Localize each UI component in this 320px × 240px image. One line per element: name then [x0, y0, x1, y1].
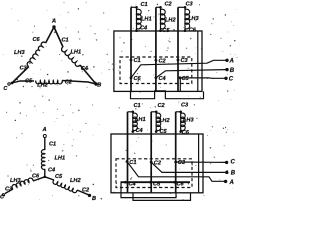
node C5 coil bottom (star box) [155, 130, 158, 133]
wire star-point bar (star box) [121, 181, 191, 183]
node B (delta right vertex) [94, 82, 97, 85]
terminal B (delta box) [225, 68, 228, 71]
svg-text:C6: C6 [182, 130, 190, 136]
wire C1 lead to terminal column (star box) [128, 111, 133, 113]
wire C2 lead to terminal column (delta box) [156, 6, 161, 8]
svg-text:C5: C5 [162, 28, 170, 34]
svg-text:C4: C4 [140, 25, 148, 31]
svg-text:C3: C3 [181, 103, 189, 109]
wire delta side A-B lower [80, 65, 96, 84]
svg-text:LH3: LH3 [183, 118, 194, 124]
terminal A (star box) [224, 180, 227, 183]
winding LH2 (star right branch) [53, 180, 77, 193]
wire C3 lead to terminal column (star box) [176, 111, 181, 113]
svg-text:C3: C3 [186, 2, 194, 8]
svg-text:C6: C6 [33, 37, 41, 43]
winding LH2 (delta box) [161, 9, 166, 29]
wire line A jumper from C6 (delta box) [131, 60, 226, 78]
wire line C from C5 (delta box) [180, 77, 225, 79]
svg-text:C: C [231, 160, 236, 166]
wire delta side A-C upper [46, 27, 54, 43]
node C5 terminal (star box) [149, 181, 152, 184]
svg-text:LH2: LH2 [37, 82, 48, 88]
svg-text:C1: C1 [49, 142, 56, 148]
node C4 terminal (delta box) [155, 76, 158, 79]
winding LH1 (star box) [133, 113, 138, 130]
node C2 terminal (delta box) [155, 59, 158, 62]
node C3 coil top (delta box) [184, 6, 187, 9]
wire column 1 (star box) [127, 112, 129, 193]
svg-text:C5: C5 [25, 79, 33, 85]
wire column 2 C2-C4 (delta box) [155, 7, 157, 91]
svg-text:B: B [97, 83, 101, 89]
wire star left branch lower [5, 189, 13, 194]
svg-text:C6: C6 [134, 76, 142, 82]
wire line C from C3 (star box) [176, 161, 225, 163]
winding LH1 (delta box) [137, 9, 142, 29]
svg-text:B: B [92, 196, 96, 202]
node C5 terminal (delta box) [179, 76, 182, 79]
node C (delta left vertex) [11, 82, 14, 85]
svg-text:B: B [230, 68, 235, 74]
wire LH1 core (star box) [132, 112, 134, 132]
wire C2 lead to terminal column (star box) [151, 111, 156, 113]
svg-text:C6: C6 [189, 28, 197, 34]
node C1 coil top (delta box) [135, 6, 138, 9]
svg-text:LH3: LH3 [188, 16, 199, 22]
winding LH3 (star left branch) [12, 178, 33, 189]
svg-text:LH1: LH1 [71, 50, 82, 56]
wire line B jumper from C2 (star box) [151, 162, 225, 172]
node C6 terminal (star box) [173, 181, 176, 184]
terminal C (star box) [225, 161, 228, 164]
node star point [44, 176, 47, 179]
svg-text:LH1: LH1 [55, 156, 66, 162]
svg-text:C: C [229, 76, 234, 82]
node C6 terminal (delta box) [130, 76, 133, 79]
svg-text:C5: C5 [153, 182, 161, 188]
winding LH2 (star box) [156, 113, 161, 130]
node C3 coil top (star box) [179, 111, 182, 114]
wire star right branch lower [77, 190, 89, 195]
svg-text:C1: C1 [134, 58, 141, 64]
svg-text:C2: C2 [159, 59, 167, 65]
svg-text:C5: C5 [160, 129, 168, 135]
node C1 terminal (delta box) [130, 59, 133, 62]
svg-text:LH2: LH2 [159, 118, 170, 124]
wire LH2 core (delta box) [160, 7, 162, 30]
node C3 terminal (star box) [174, 161, 177, 164]
svg-text:C4: C4 [48, 168, 56, 174]
wire C5 drop (delta box) [179, 78, 181, 92]
svg-text:C2: C2 [65, 80, 73, 86]
wire LH1 core (delta box) [136, 7, 138, 30]
svg-text:C4: C4 [81, 66, 89, 72]
svg-text:C4: C4 [136, 128, 144, 134]
winding LH1 (delta right side) [62, 47, 80, 66]
node C1 coil top (star box) [132, 111, 135, 114]
svg-text:C1: C1 [141, 2, 148, 8]
svg-text:C3: C3 [5, 187, 13, 193]
node B (star) [88, 194, 91, 197]
wire line B jumper from C4 (delta box) [156, 70, 226, 78]
wire star right branch upper [45, 177, 54, 180]
svg-text:A: A [229, 180, 234, 186]
frame stator box (delta) [114, 31, 202, 91]
svg-text:LH3: LH3 [14, 50, 25, 56]
node C5 coil bottom (delta box) [159, 29, 162, 32]
frame inner right edge (star box) [198, 134, 200, 193]
svg-text:A: A [51, 19, 56, 25]
terminal C (delta box) [224, 77, 227, 80]
svg-text:C6: C6 [177, 182, 185, 188]
wire star left branch upper [33, 177, 45, 181]
wire LH3 core (delta box) [184, 7, 186, 30]
svg-text:A: A [229, 58, 234, 64]
svg-text:C2: C2 [158, 103, 166, 109]
svg-text:LH3: LH3 [10, 178, 21, 184]
svg-text:B: B [231, 171, 236, 177]
winding LH3 (delta left side) [27, 42, 45, 66]
wire under-loop 2 (star box) [133, 193, 191, 201]
node C2 coil top (star box) [155, 111, 158, 114]
svg-text:C2: C2 [165, 2, 173, 8]
node C4 coil bottom (star box) [132, 130, 135, 133]
svg-text:C5: C5 [55, 174, 63, 180]
wire star phase A upper [44, 138, 46, 151]
wire C3 lead to terminal column (delta box) [178, 6, 185, 8]
winding LH3 (delta box) [185, 9, 190, 29]
svg-text:LH1: LH1 [135, 117, 146, 123]
wire column 2 (star box) [150, 112, 152, 193]
svg-text:C4: C4 [159, 76, 167, 82]
terminal A (delta box) [225, 59, 228, 62]
frame inner right edge (delta box) [197, 31, 199, 91]
wire star phase A lower [44, 169, 46, 177]
svg-text:C6: C6 [32, 174, 40, 180]
terminal board dashed (delta box) [120, 57, 192, 84]
wire C1 lead to terminal column (delta box) [131, 6, 137, 8]
wire delta side A-C lower [12, 67, 29, 84]
node C4 coil bottom (delta box) [135, 29, 138, 32]
wire line A jumper from C1 (star box) [127, 162, 224, 182]
node C6 coil bottom (delta box) [184, 29, 187, 32]
svg-text:LH2: LH2 [70, 178, 81, 184]
frame stator box (star) [111, 134, 203, 193]
wire column 1 C1-C6 (delta box) [130, 7, 132, 91]
terminal C (star) [2, 194, 4, 196]
node C2 terminal (star box) [150, 161, 153, 164]
svg-text:C4: C4 [129, 181, 137, 187]
wire delta bottom B-side [62, 81, 96, 85]
node C3 terminal (delta box) [177, 59, 180, 62]
node C6 coil bottom (star box) [179, 130, 182, 133]
node A (delta top vertex) [52, 25, 55, 28]
terminal C (delta) [8, 83, 10, 85]
svg-text:LH1: LH1 [141, 16, 152, 22]
wire under-loop 1 (star box) [121, 182, 176, 197]
svg-text:A: A [42, 127, 47, 133]
svg-text:C5: C5 [182, 76, 190, 82]
winding LH1 (star vertical) [41, 150, 44, 170]
wire column 3 C3-C5 (delta box) [177, 7, 179, 91]
wire LH3 core (star box) [180, 112, 182, 132]
terminal A (star) [43, 135, 46, 138]
wire under-loop (delta box) [131, 91, 204, 99]
wire column 3 (star box) [175, 112, 177, 193]
svg-text:C3: C3 [178, 160, 186, 166]
svg-text:C2: C2 [82, 188, 90, 194]
node C2 coil top (delta box) [159, 6, 162, 9]
wire delta bottom C-side [12, 81, 34, 83]
node C1 terminal (star box) [126, 160, 129, 163]
terminal board dashed (star box) [116, 159, 192, 188]
svg-text:C3: C3 [20, 65, 28, 71]
wire LH2 core (star box) [155, 112, 157, 132]
svg-text:C1: C1 [134, 103, 141, 109]
wire delta side A-B upper [54, 27, 63, 47]
winding LH2 (delta bottom side) [36, 81, 63, 84]
svg-text:LH2: LH2 [165, 17, 176, 23]
node C4 terminal (star box) [124, 181, 127, 184]
svg-text:C1: C1 [62, 37, 69, 43]
winding LH3 (star box) [181, 113, 186, 130]
terminal B (star box) [225, 171, 228, 174]
